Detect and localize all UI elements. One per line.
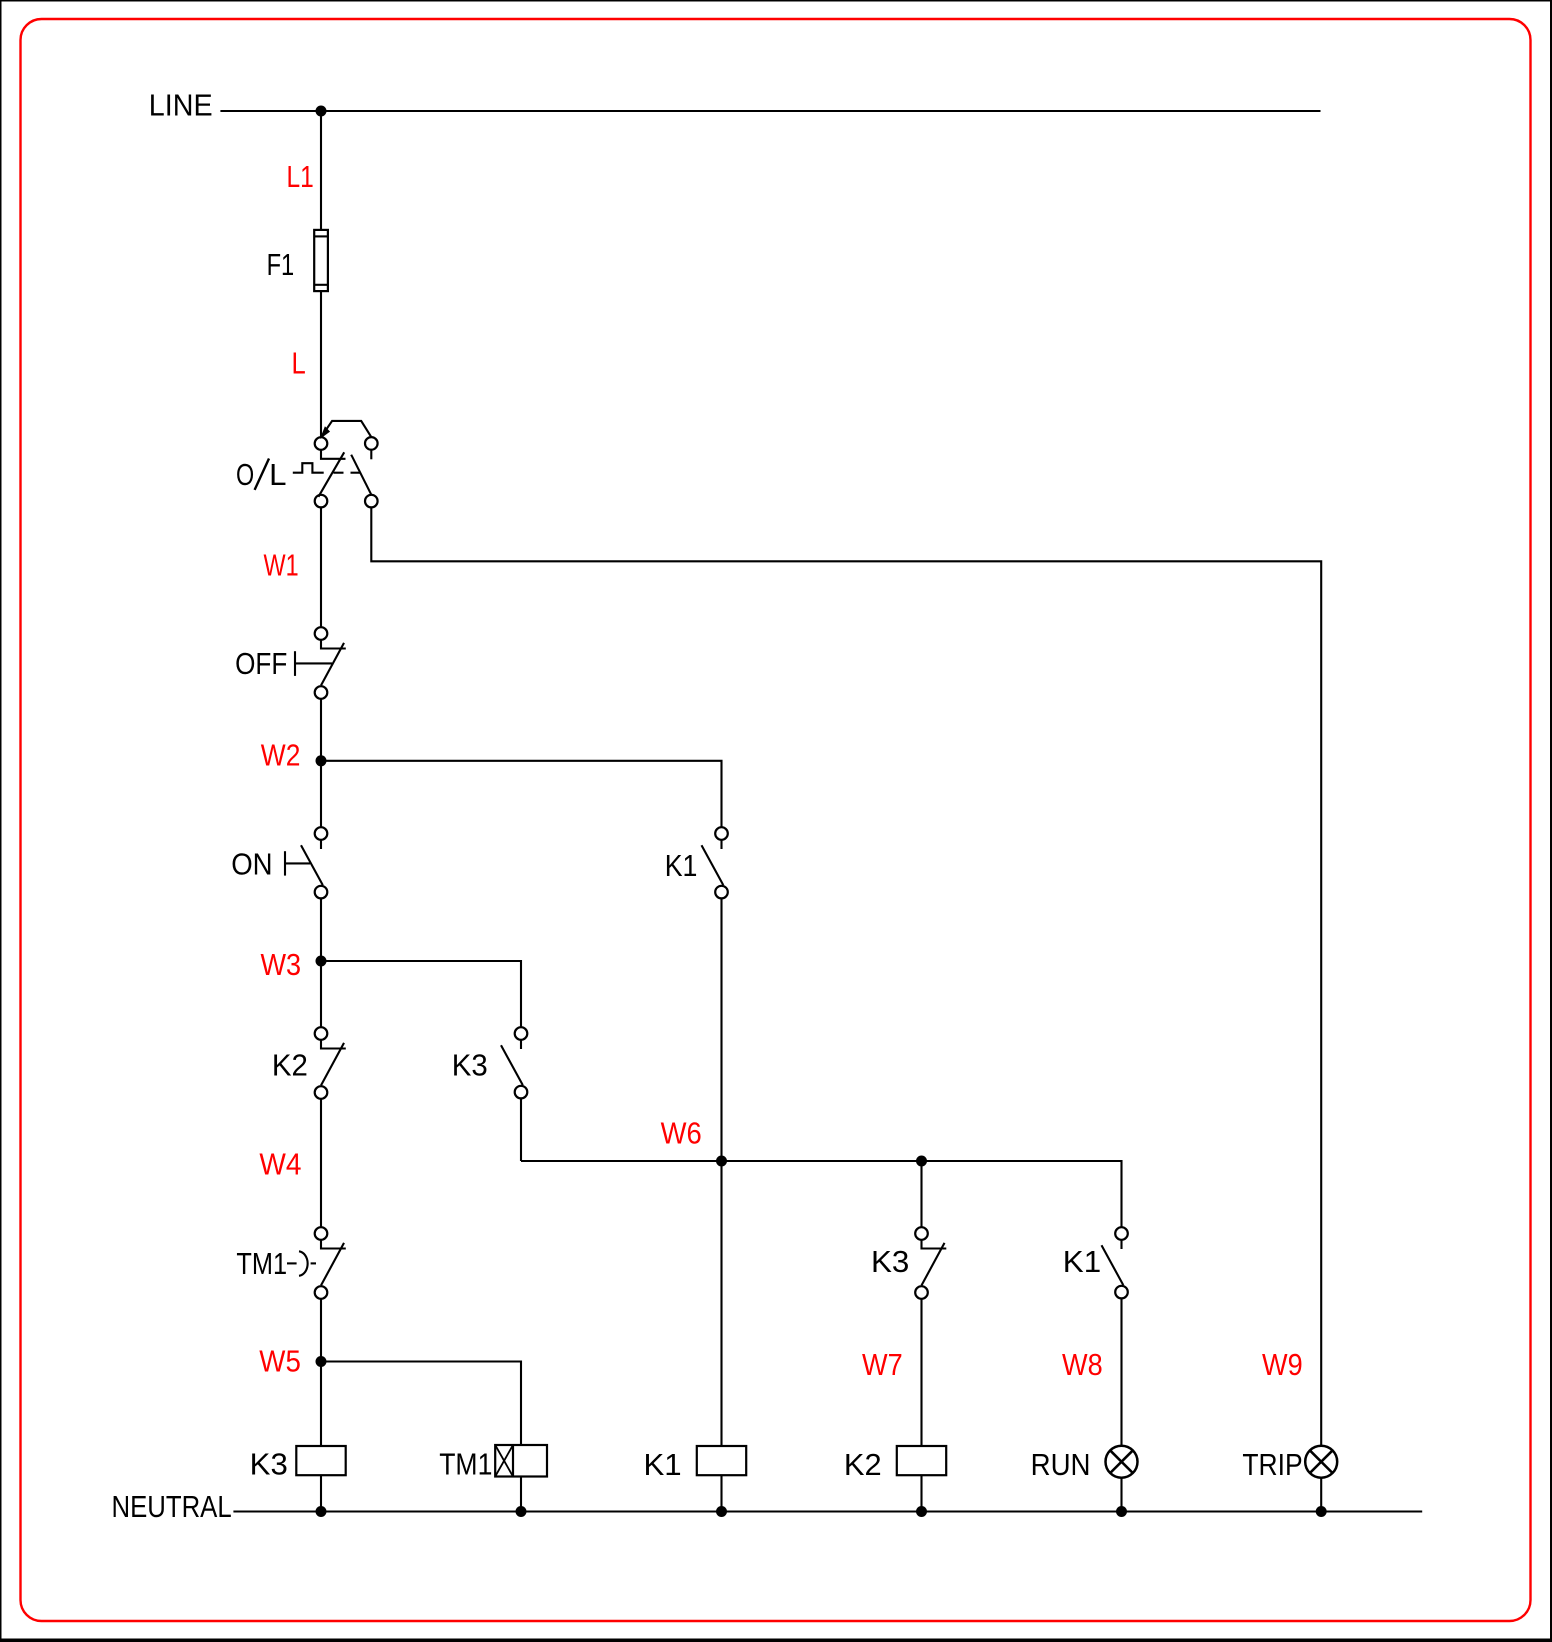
- label W3 (net): [261, 947, 302, 982]
- label L1 (net): [287, 159, 314, 194]
- svg-text:L: L: [292, 346, 306, 381]
- label W8 (net): [1062, 1347, 1103, 1382]
- contact K2 (NC): [315, 1027, 346, 1099]
- label NEUTRAL: [112, 1489, 232, 1524]
- wire rail OFF to ON: [320, 699, 322, 827]
- wire W4 rail (K2 to TM1 contact): [320, 1099, 322, 1227]
- contact OFF (NC pushbutton): [315, 627, 346, 699]
- svg-text:NEUTRAL: NEUTRAL: [112, 1489, 232, 1524]
- label W2 (net): [261, 737, 301, 772]
- coil K1: [697, 1446, 746, 1475]
- coil K3: [296, 1446, 345, 1475]
- wire TM1 coil to neutral: [520, 1477, 522, 1512]
- svg-text:W1: W1: [264, 547, 299, 582]
- svg-text:W5: W5: [259, 1344, 301, 1379]
- node NEUTRAL junction 1 (dot): [316, 1506, 327, 1517]
- wire from K3 contact down to W6: [520, 1098, 522, 1161]
- svg-text:O: O: [236, 457, 254, 492]
- label L (net): [292, 346, 306, 381]
- wire K1 rail (contact to coil): [720, 898, 722, 1446]
- label F1: [267, 247, 295, 282]
- label W4 (net): [259, 1146, 301, 1181]
- label RUN: [1031, 1447, 1091, 1482]
- pushbutton OFF (NC) actuator: [295, 651, 332, 676]
- contact K3 right (NC): [915, 1227, 946, 1299]
- wire W1 branch to TRIP (and net W9 drop): [371, 507, 1321, 1445]
- pushbutton ON (NO) actuator: [285, 851, 310, 875]
- svg-text:K3: K3: [871, 1244, 909, 1279]
- svg-text:TM1: TM1: [439, 1447, 492, 1482]
- svg-text:K1: K1: [665, 848, 698, 883]
- wire W3 branch to K3 contact: [321, 961, 521, 1027]
- node NEUTRAL junction 5 (dot): [1116, 1506, 1127, 1517]
- label LINE: [149, 88, 213, 123]
- svg-text:F1: F1: [267, 247, 295, 282]
- wire W6 drop to K3 right contact: [920, 1161, 922, 1227]
- timed contact TM1 actuator (delay symbol): [287, 1251, 316, 1276]
- label TM1 (coil): [439, 1447, 492, 1482]
- overload O/L heater symbol: [293, 463, 324, 473]
- label K3 (coil): [250, 1447, 288, 1482]
- label W5 (net): [259, 1344, 301, 1379]
- wire L1 (LINE to fuse): [320, 111, 322, 231]
- label OFF: [235, 646, 287, 681]
- wire W8 (K1 contact to RUN lamp): [1120, 1298, 1122, 1445]
- node W3 (junction dot): [316, 956, 327, 967]
- node W5 (junction dot): [316, 1356, 327, 1367]
- lamp TRIP: [1305, 1446, 1337, 1478]
- contact K3 (NO): [501, 1027, 527, 1098]
- label K2 (coil): [844, 1447, 882, 1482]
- svg-text:K1: K1: [644, 1447, 682, 1482]
- svg-text:TRIP: TRIP: [1242, 1447, 1302, 1482]
- wire RUN lamp to neutral: [1120, 1478, 1122, 1512]
- wire NEUTRAL bus: [233, 1510, 1422, 1512]
- wire LINE bus: [220, 110, 1320, 112]
- label W7 (net): [862, 1347, 903, 1382]
- node NEUTRAL junction 3 (dot): [716, 1506, 727, 1517]
- wire rail TM1 contact to K3 coil: [320, 1299, 322, 1446]
- wire rail ON to K2: [320, 898, 322, 1027]
- label O/L: [236, 457, 287, 492]
- overload relay O/L operating bridge: [321, 421, 371, 438]
- wire W5 branch to TM1 coil: [321, 1362, 521, 1446]
- fuse F1: [314, 230, 328, 291]
- contact K1 right (NO): [1102, 1227, 1128, 1298]
- contact ON (NO pushbutton): [301, 827, 327, 898]
- svg-text:W2: W2: [261, 737, 301, 772]
- node NEUTRAL junction 6 (dot): [1316, 1506, 1327, 1517]
- svg-text:W8: W8: [1062, 1347, 1103, 1382]
- svg-text:K2: K2: [844, 1447, 882, 1482]
- label W9 (net): [1262, 1347, 1303, 1382]
- wire L (fuse to overload): [320, 291, 322, 437]
- label W1 (net): [264, 547, 299, 582]
- wire K3 coil to neutral: [320, 1475, 322, 1511]
- label K1 (sealing contact): [665, 848, 698, 883]
- overload contact O/L left pole (NC): [315, 437, 346, 507]
- svg-text:LINE: LINE: [149, 88, 213, 123]
- node on LINE bus (junction dot): [316, 106, 327, 117]
- svg-text:K1: K1: [1063, 1244, 1101, 1279]
- wire K2 coil to neutral: [920, 1475, 922, 1511]
- node NEUTRAL junction 4 (dot): [916, 1506, 927, 1517]
- svg-text:W6: W6: [661, 1115, 702, 1150]
- svg-text:W7: W7: [862, 1347, 903, 1382]
- label K2: [272, 1047, 308, 1082]
- node W2 (junction dot): [316, 755, 327, 766]
- svg-text:L: L: [269, 457, 286, 492]
- svg-text:L1: L1: [287, 159, 314, 194]
- contact K1 (NO, seal-in): [702, 827, 728, 898]
- overload contact O/L right pole: [351, 437, 378, 507]
- coil K2: [897, 1446, 946, 1475]
- svg-text:K3: K3: [452, 1047, 488, 1082]
- label K3 (right): [871, 1244, 909, 1279]
- node W6 at K3 branch (junction dot): [916, 1156, 927, 1167]
- label K1 (right): [1063, 1244, 1101, 1279]
- contact TM1 (NC timed): [315, 1227, 346, 1299]
- wire W7 (K3 contact to K2 coil): [920, 1299, 922, 1446]
- svg-text:W4: W4: [259, 1146, 301, 1181]
- wire W1 rail (overload to OFF): [320, 507, 322, 627]
- svg-text:K2: K2: [272, 1047, 308, 1082]
- svg-text:ON: ON: [231, 847, 272, 882]
- label K1 (coil): [644, 1447, 682, 1482]
- lamp RUN: [1106, 1446, 1138, 1478]
- svg-text:RUN: RUN: [1031, 1447, 1091, 1482]
- wire K1 coil to neutral: [720, 1475, 722, 1511]
- node NEUTRAL junction 2 (dot): [516, 1506, 527, 1517]
- svg-text:OFF: OFF: [235, 646, 287, 681]
- node W6 at K1 rail (junction dot): [716, 1156, 727, 1167]
- label TRIP: [1242, 1447, 1302, 1482]
- timer coil TM1: [495, 1445, 547, 1477]
- label ON: [231, 847, 272, 882]
- label K3 (middle): [452, 1047, 488, 1082]
- wire TRIP lamp to neutral: [1320, 1478, 1322, 1512]
- wire W6 bus: [521, 1161, 1122, 1227]
- svg-text:W3: W3: [261, 947, 302, 982]
- svg-text:K3: K3: [250, 1447, 288, 1482]
- wire W2 branch to K1 contact: [321, 761, 722, 827]
- svg-text:TM1: TM1: [236, 1246, 287, 1281]
- svg-text:W9: W9: [1262, 1347, 1303, 1382]
- label W6 (net): [661, 1115, 702, 1150]
- label TM1 (contact): [236, 1246, 287, 1281]
